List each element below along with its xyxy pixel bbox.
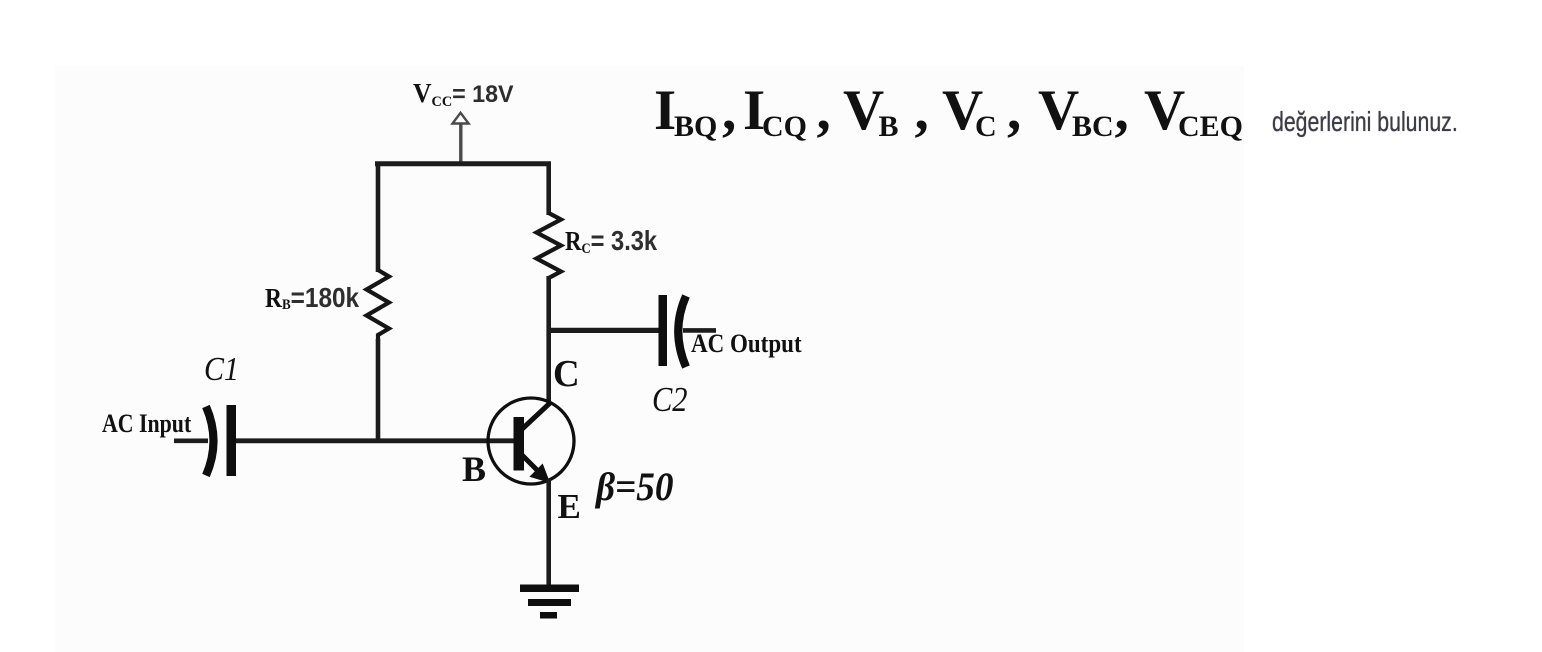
wire left vertical lower bbox=[376, 339, 381, 443]
wire base horizontal bbox=[236, 438, 516, 443]
ground bar 2 bbox=[528, 599, 571, 606]
label E (emitter) bbox=[558, 489, 581, 524]
label AC Output bbox=[691, 331, 802, 357]
ground bar 1 bbox=[520, 585, 579, 593]
label AC Input bbox=[102, 411, 191, 437]
capacitor C1 curved plate bbox=[206, 407, 214, 476]
transistor Q1 emitter arrowhead bbox=[531, 465, 548, 481]
formula I1 bbox=[654, 82, 676, 139]
formula sub BQ bbox=[674, 112, 717, 142]
capacitor C2 curved plate bbox=[678, 296, 686, 367]
scanned page background bbox=[55, 66, 1244, 652]
wire AC output right stub bbox=[683, 328, 716, 333]
transistor Q1 base bar bbox=[514, 417, 525, 471]
capacitor C1 flat plate bbox=[227, 405, 237, 476]
wire collector output branch bbox=[549, 328, 659, 333]
formula sub B bbox=[879, 112, 899, 142]
formula V1 bbox=[843, 82, 884, 139]
transistor Q1 circle bbox=[488, 398, 574, 484]
wire emitter vertical bbox=[546, 479, 551, 586]
label C1 bbox=[204, 353, 239, 387]
wire AC input left stub bbox=[174, 438, 208, 443]
formula comma 3 bbox=[915, 82, 929, 139]
formula I_BQ , I_CQ , V_B , V_C , V_BC , V_CEQ bbox=[0, 0, 1, 1]
formula comma 2 bbox=[817, 82, 831, 139]
transistor Q1 emitter diagonal bbox=[520, 453, 540, 473]
wire left vertical upper bbox=[376, 162, 381, 273]
label Vcc = 18V bbox=[413, 80, 514, 110]
formula comma 1 bbox=[722, 82, 736, 139]
power supply arrow Vcc bbox=[453, 113, 469, 164]
transistor Q1 collector diagonal bbox=[520, 403, 550, 431]
formula comma 4 bbox=[1007, 82, 1021, 139]
formula sub C bbox=[975, 112, 997, 142]
resistor RB zigzag bbox=[367, 270, 390, 341]
label RB = 180k bbox=[265, 284, 359, 313]
wire top bus bbox=[375, 161, 551, 166]
formula sub CEQ bbox=[1178, 112, 1243, 142]
formula comma 5 bbox=[1115, 82, 1129, 139]
label beta = 50 bbox=[596, 467, 673, 507]
label RC = 3.3k bbox=[565, 227, 657, 257]
instruction text (Turkish) bbox=[1272, 108, 1458, 136]
label C (collector) bbox=[553, 355, 580, 393]
capacitor C2 flat plate bbox=[659, 295, 668, 366]
label C2 bbox=[652, 382, 688, 417]
wire collector vertical bbox=[546, 276, 551, 405]
formula sub CQ bbox=[762, 112, 807, 142]
formula V4 bbox=[1144, 82, 1185, 139]
formula I2 bbox=[743, 82, 765, 139]
label B (base) bbox=[462, 451, 486, 487]
formula sub BC bbox=[1072, 112, 1114, 142]
ground bar 3 bbox=[540, 612, 557, 619]
formula V3 bbox=[1038, 82, 1079, 139]
resistor RC zigzag bbox=[537, 213, 562, 278]
wire right vertical upper bbox=[546, 162, 551, 216]
formula V2 bbox=[942, 82, 983, 139]
